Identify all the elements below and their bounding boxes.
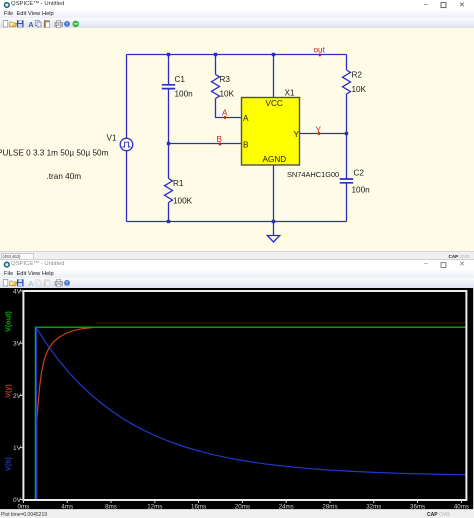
IC X1 SN74AHC1G00 NAND gate body (242, 98, 300, 166)
paste (44, 21, 49, 28)
x ticks (23, 500, 461, 503)
capacitor C2 (340, 179, 353, 183)
save (17, 21, 23, 27)
svg-text:C1: C1 (175, 75, 186, 84)
svg-text:10K: 10K (352, 85, 367, 94)
wire V1 bottom (126, 151, 128, 222)
wire C2 top (346, 134, 348, 180)
new (3, 21, 8, 27)
status bar window 2 (0, 509, 474, 518)
voltage source V1 (120, 138, 133, 151)
trace V(y) remnant (96, 322, 466, 324)
svg-text:V1: V1 (107, 134, 117, 143)
svg-text:B: B (243, 141, 249, 150)
svg-text:V(b): V(b) (4, 456, 13, 471)
plot area (0, 288, 474, 509)
svg-text:PULSE 0 3.3 1m 50µ 50µ 50m: PULSE 0 3.3 1m 50µ 50µ 50m (0, 149, 109, 158)
status bar window 1 (0, 251, 474, 260)
svg-text:3V: 3V (13, 341, 22, 348)
svg-text:V(out): V(out) (4, 311, 13, 332)
open (10, 23, 17, 27)
wire A (216, 99, 242, 118)
wire V1 top (126, 55, 128, 139)
wire AGND pin (273, 165, 275, 236)
wire R1 bottom (168, 203, 170, 222)
wire B (169, 143, 242, 145)
trace V(out) (23, 327, 466, 500)
ground (267, 236, 279, 243)
wire R2 top (346, 55, 348, 71)
svg-text:V(y): V(y) (4, 384, 13, 398)
wire R3 top (215, 55, 217, 75)
resistor R3 (212, 75, 220, 99)
svg-text:A: A (28, 279, 34, 288)
capacitor C1 (162, 85, 175, 89)
svg-text:SN74AHC1G00: SN74AHC1G00 (287, 170, 339, 179)
axis frame (23, 291, 466, 500)
svg-text:4V: 4V (13, 289, 22, 296)
svg-text:2V: 2V (13, 393, 22, 400)
svg-text:out: out (314, 46, 326, 55)
wire VCC pin (273, 55, 275, 98)
svg-text:B: B (217, 135, 223, 144)
wire C2 bottom (346, 183, 348, 222)
wire R2 to node Y (346, 94, 348, 134)
wire node B to R1 (168, 144, 170, 179)
svg-text:R2: R2 (352, 71, 363, 80)
wire C1 to node B (168, 89, 170, 144)
wire bottom rail (127, 221, 347, 223)
print (55, 23, 62, 27)
svg-text:Y: Y (294, 130, 300, 139)
y ticks (20, 291, 24, 500)
svg-text:100n: 100n (352, 186, 371, 195)
svg-text:R3: R3 (220, 75, 231, 84)
trace V(b) (23, 328, 466, 500)
canvas (0, 28, 474, 251)
copy (35, 21, 39, 26)
resistor R2 (343, 70, 351, 94)
svg-text:X1: X1 (285, 89, 295, 98)
trace V(y) (23, 328, 92, 500)
svg-text:AGND: AGND (263, 155, 287, 164)
wire Y (300, 133, 347, 135)
svg-text:.tran 40m: .tran 40m (47, 172, 82, 181)
svg-text:VCC: VCC (266, 99, 283, 108)
svg-text:R1: R1 (173, 179, 184, 188)
run (72, 21, 79, 28)
svg-text:1V: 1V (13, 445, 22, 452)
resistor R1 (165, 179, 173, 203)
svg-text:100K: 100K (173, 197, 193, 206)
help (64, 21, 70, 27)
wire C1 top (168, 55, 170, 85)
svg-text:10K: 10K (220, 90, 235, 99)
wire top rail (127, 54, 347, 56)
svg-text:A: A (243, 114, 249, 123)
svg-text:C2: C2 (354, 169, 365, 178)
node junctions (167, 53, 348, 223)
svg-text:100n: 100n (175, 90, 194, 99)
